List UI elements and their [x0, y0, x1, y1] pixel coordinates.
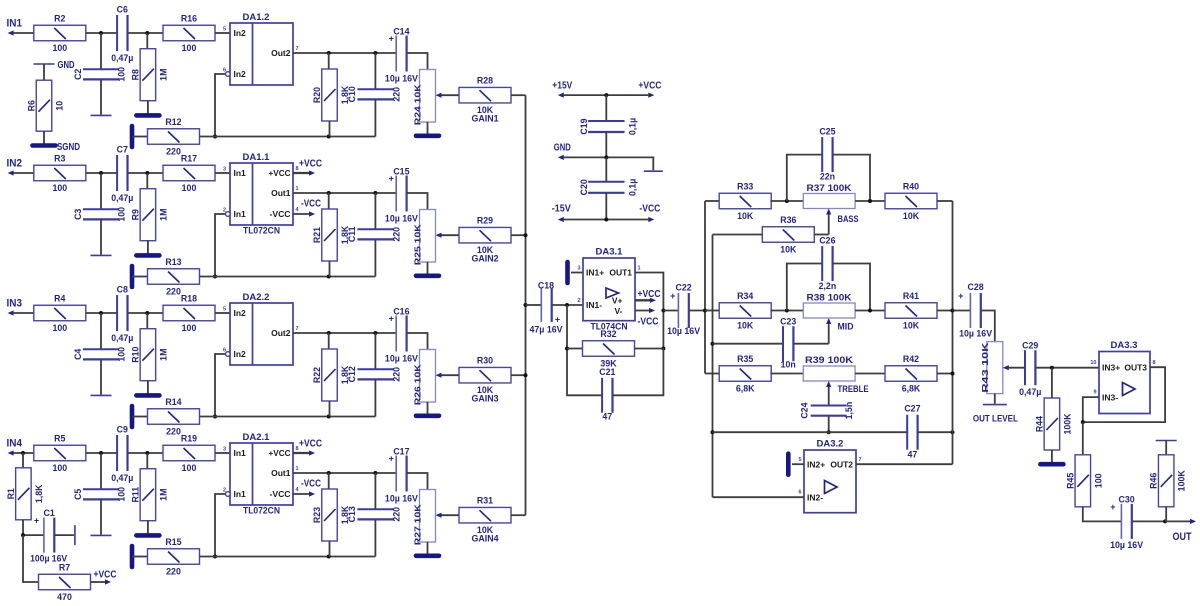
- svg-text:1M: 1M: [158, 209, 168, 221]
- svg-text:+: +: [389, 314, 394, 324]
- wire: [605, 95, 607, 121]
- wire: [374, 379, 376, 416]
- wire: [100, 313, 102, 350]
- svg-text:C21: C21: [599, 367, 615, 377]
- svg-text:IN2: IN2: [7, 158, 23, 170]
- power V- arrow: [635, 308, 659, 328]
- svg-text:1: 1: [296, 186, 299, 192]
- svg-text:100: 100: [52, 323, 67, 333]
- svg-text:IN2-: IN2-: [807, 493, 823, 503]
- wire: [146, 173, 148, 189]
- svg-text:Out1: Out1: [271, 468, 291, 478]
- svg-text:C22: C22: [676, 283, 692, 293]
- svg-text:10K: 10K: [903, 211, 920, 221]
- svg-text:R45: R45: [1065, 473, 1075, 489]
- svg-text:IN2+: IN2+: [807, 460, 825, 470]
- junction: [99, 171, 103, 175]
- junction: [327, 415, 331, 419]
- wire GND rail: [563, 157, 654, 170]
- wire: [86, 312, 117, 314]
- op-amp DA1.1: [223, 152, 300, 237]
- svg-text:R33: R33: [737, 182, 753, 192]
- svg-text:R17: R17: [181, 154, 197, 164]
- svg-text:3: 3: [577, 266, 580, 272]
- wire output DA2.2: [293, 332, 396, 334]
- junction: [213, 555, 217, 559]
- svg-text:R9: R9: [130, 209, 140, 220]
- resistor R30 GAIN3: [459, 356, 511, 404]
- svg-text:47: 47: [908, 450, 918, 460]
- wire: [13, 312, 34, 314]
- svg-text:IN3+: IN3+: [1102, 362, 1120, 372]
- wire: [132, 276, 148, 278]
- wire: [86, 452, 117, 454]
- svg-text:+VCC: +VCC: [638, 289, 661, 300]
- wire: [374, 473, 376, 510]
- svg-text:Out2: Out2: [271, 328, 291, 338]
- capacitor C4: [73, 347, 127, 362]
- ground: [130, 126, 135, 147]
- wiper arrow: [436, 373, 459, 378]
- wire: [828, 416, 830, 433]
- wire OUT3 feedback: [1083, 367, 1165, 422]
- svg-text:R25 10K: R25 10K: [413, 223, 423, 265]
- svg-text:R8: R8: [130, 69, 140, 80]
- junction: [213, 415, 217, 419]
- svg-text:-VCC: -VCC: [301, 199, 321, 210]
- junction: [827, 430, 831, 434]
- junction: [327, 191, 331, 195]
- wiper arrow: [436, 513, 459, 518]
- wire: [328, 193, 330, 209]
- svg-text:IN1-: IN1-: [586, 300, 602, 310]
- wire: [855, 200, 885, 202]
- junction: [327, 51, 331, 55]
- svg-text:1,5n: 1,5n: [844, 402, 854, 420]
- svg-text:22n: 22n: [820, 172, 835, 182]
- wire: [407, 333, 428, 350]
- ground: [1040, 462, 1063, 467]
- svg-text:In2: In2: [234, 349, 247, 359]
- svg-text:V+: V+: [612, 296, 623, 306]
- svg-text:R11: R11: [130, 487, 140, 503]
- wire: [605, 157, 607, 181]
- capacitor C12: [347, 366, 402, 382]
- svg-text:0,47µ: 0,47µ: [1019, 387, 1041, 397]
- capacitor C17: [385, 446, 418, 503]
- wire: [215, 32, 230, 34]
- wire OUT2: [856, 463, 953, 465]
- svg-text:5: 5: [223, 307, 226, 313]
- junction: [868, 309, 872, 313]
- ground: [91, 394, 112, 396]
- wire: [132, 136, 148, 138]
- wiper BASS: [826, 209, 858, 235]
- junction: [661, 347, 665, 351]
- svg-text:C4: C4: [73, 349, 83, 360]
- svg-text:100K: 100K: [1177, 470, 1187, 492]
- junction: [327, 555, 331, 559]
- svg-text:IN3-: IN3-: [1102, 392, 1118, 402]
- wire: [705, 310, 720, 312]
- svg-text:R27 10K: R27 10K: [413, 503, 423, 545]
- svg-text:10: 10: [55, 101, 65, 111]
- svg-text:DA3.1: DA3.1: [596, 247, 624, 258]
- junction: [99, 451, 103, 455]
- wire: [215, 172, 230, 174]
- junction: [21, 533, 25, 537]
- node IN3: [7, 298, 23, 316]
- wire: [128, 452, 164, 454]
- resistor R8 1M: [130, 49, 168, 101]
- junction: [951, 430, 955, 434]
- power V+ arrow: [635, 289, 661, 303]
- capacitor C8: [111, 285, 133, 343]
- svg-text:220: 220: [166, 427, 181, 437]
- svg-text:47: 47: [602, 412, 612, 422]
- svg-text:10n: 10n: [781, 360, 796, 370]
- svg-text:R12: R12: [165, 117, 181, 127]
- potentiometer R38 MID: [803, 293, 855, 319]
- svg-text:+VCC: +VCC: [299, 439, 322, 450]
- wire: [705, 200, 720, 202]
- svg-text:BASS: BASS: [838, 214, 859, 224]
- wire: [86, 32, 117, 34]
- resistor R1: [6, 468, 44, 520]
- svg-text:IN3: IN3: [7, 298, 23, 310]
- svg-text:TREBLE: TREBLE: [838, 384, 869, 394]
- wire: [937, 310, 953, 312]
- svg-text:100: 100: [116, 207, 126, 222]
- svg-text:C12: C12: [347, 366, 357, 382]
- svg-text:100: 100: [52, 183, 67, 193]
- potentiometer R43 OUT LEVEL: [973, 341, 1018, 424]
- wire: [705, 373, 720, 375]
- node IN2: [7, 158, 23, 176]
- ground: [1156, 440, 1177, 442]
- svg-text:+: +: [389, 34, 394, 44]
- capacitor C26: [787, 236, 870, 311]
- svg-text:OUT1: OUT1: [609, 268, 632, 278]
- wire: [128, 312, 164, 314]
- wire: [814, 234, 829, 236]
- wire: [567, 305, 602, 395]
- resistor R10 1M: [130, 329, 168, 381]
- resistor R16: [163, 14, 215, 54]
- ground: [136, 253, 159, 258]
- svg-text:R42: R42: [903, 354, 919, 364]
- wire: [770, 200, 803, 202]
- svg-text:1M: 1M: [158, 69, 168, 81]
- resistor R34: [719, 291, 771, 331]
- svg-text:R22: R22: [312, 367, 322, 383]
- svg-text:+VCC: +VCC: [94, 570, 117, 581]
- svg-text:R46: R46: [1149, 473, 1159, 489]
- wire: [374, 519, 376, 556]
- wiper arrow: [1003, 365, 1025, 370]
- wire: [689, 310, 705, 312]
- svg-text:R14: R14: [165, 397, 181, 407]
- svg-text:3: 3: [223, 447, 226, 453]
- svg-text:R5: R5: [54, 434, 65, 444]
- op-amp DA3.3: [1090, 340, 1155, 414]
- resistor R28 GAIN1: [459, 76, 511, 124]
- svg-text:5: 5: [223, 27, 226, 33]
- svg-text:R20: R20: [312, 87, 322, 103]
- svg-text:C26: C26: [819, 236, 835, 246]
- wire: [374, 239, 376, 276]
- svg-text:In1: In1: [234, 489, 247, 499]
- svg-text:C8: C8: [117, 285, 128, 295]
- ground: [74, 525, 76, 545]
- svg-text:R44: R44: [1034, 416, 1044, 432]
- op-amp DA2.1: [223, 432, 300, 517]
- wire: [13, 452, 34, 454]
- svg-text:1M: 1M: [158, 489, 168, 501]
- wire: [147, 521, 149, 534]
- wiper MID: [826, 318, 854, 344]
- svg-text:+VCC: +VCC: [638, 81, 661, 92]
- ground: [416, 553, 439, 558]
- svg-text:Out2: Out2: [271, 48, 291, 58]
- resistor R20: [312, 69, 350, 121]
- svg-text:6,8K: 6,8K: [736, 384, 755, 394]
- svg-text:100: 100: [182, 183, 197, 193]
- wire: [146, 453, 148, 469]
- net +VCC arrow: [91, 570, 117, 585]
- svg-text:In2: In2: [234, 308, 247, 318]
- svg-text:In2: In2: [234, 28, 247, 38]
- svg-text:100K: 100K: [1062, 413, 1072, 435]
- wire: [953, 310, 971, 312]
- ground: [130, 546, 135, 567]
- svg-text:R30: R30: [477, 356, 493, 366]
- ground: [91, 114, 112, 116]
- svg-text:0,47µ: 0,47µ: [111, 333, 133, 343]
- wire: [635, 348, 664, 350]
- capacitor C7: [111, 145, 133, 203]
- svg-text:GAIN2: GAIN2: [472, 254, 499, 264]
- svg-text:10K: 10K: [903, 321, 920, 331]
- ground: [786, 454, 791, 475]
- wire: [526, 304, 542, 306]
- wire: [374, 193, 376, 230]
- wire output DA1.2: [293, 52, 396, 54]
- capacitor C28: [958, 282, 992, 339]
- wire: [1051, 368, 1053, 398]
- wire: [663, 310, 678, 312]
- svg-text:In1: In1: [234, 448, 247, 458]
- svg-text:2: 2: [223, 208, 226, 214]
- capacitor C25: [787, 127, 870, 202]
- svg-text:R39 100K: R39 100K: [805, 355, 854, 365]
- svg-text:C1: C1: [43, 508, 54, 518]
- svg-text:0,1µ: 0,1µ: [628, 118, 638, 135]
- op-amp DA2.2: [223, 292, 299, 365]
- svg-text:220: 220: [166, 567, 181, 577]
- svg-text:R32: R32: [600, 329, 616, 339]
- svg-text:10µ 16V: 10µ 16V: [385, 73, 418, 83]
- wire: [937, 200, 953, 202]
- wire: [100, 173, 102, 210]
- power +VCC arrow: [293, 159, 322, 176]
- svg-text:GAIN3: GAIN3: [472, 394, 499, 404]
- wiper TREBLE: [826, 381, 868, 406]
- ground: [416, 413, 439, 418]
- svg-text:R38 100K: R38 100K: [807, 293, 853, 303]
- svg-text:10µ 16V: 10µ 16V: [385, 353, 418, 363]
- wire: [132, 556, 148, 558]
- svg-text:R10: R10: [130, 347, 140, 363]
- resistor R22: [312, 349, 350, 401]
- svg-text:100: 100: [1093, 473, 1103, 488]
- resistor R33: [719, 182, 771, 222]
- capacitor C1: [30, 508, 67, 564]
- ground: [983, 404, 1007, 406]
- svg-text:10µ 16V: 10µ 16V: [1110, 540, 1143, 550]
- svg-text:R6: R6: [27, 100, 37, 111]
- junction: [711, 430, 715, 434]
- svg-text:DA1.2: DA1.2: [243, 12, 270, 23]
- resistor R41: [885, 291, 937, 331]
- resistor R35: [719, 354, 771, 394]
- capacitor C29: [1019, 341, 1041, 397]
- junction: [373, 331, 377, 335]
- wire -15V rail: [563, 219, 650, 221]
- junction: [373, 191, 377, 195]
- capacitor C2: [73, 67, 127, 82]
- svg-text:220: 220: [166, 287, 181, 297]
- wire feedback rail: [200, 136, 376, 138]
- svg-text:R3: R3: [54, 154, 65, 164]
- junction: [145, 171, 149, 175]
- wire: [374, 99, 376, 136]
- wire inverting input: [215, 214, 226, 277]
- svg-text:C23: C23: [780, 317, 796, 327]
- svg-text:0,47µ: 0,47µ: [111, 53, 133, 63]
- svg-text:OUT2: OUT2: [830, 460, 853, 470]
- wire: [328, 473, 330, 489]
- wire: [328, 333, 330, 349]
- svg-text:C28: C28: [968, 282, 984, 292]
- svg-text:+: +: [389, 454, 394, 464]
- svg-text:100: 100: [52, 463, 67, 473]
- resistor R44: [1034, 398, 1072, 450]
- junction: [213, 275, 217, 279]
- wire: [605, 193, 607, 220]
- resistor R17: [163, 154, 215, 194]
- wire: [567, 348, 583, 350]
- svg-text:10K: 10K: [737, 321, 754, 331]
- junction: [604, 155, 608, 159]
- ground: [136, 533, 159, 538]
- capacitor C10: [347, 86, 402, 102]
- ground: [91, 534, 112, 536]
- resistor R4: [34, 294, 86, 334]
- junction: [524, 303, 528, 307]
- wire IN2+ stub: [792, 463, 804, 465]
- svg-text:220: 220: [392, 367, 402, 382]
- svg-text:GND: GND: [554, 143, 571, 154]
- wire: [329, 541, 331, 557]
- junction: [604, 93, 608, 97]
- svg-text:C29: C29: [1022, 341, 1038, 351]
- svg-text:C9: C9: [117, 425, 128, 435]
- junction: [524, 233, 528, 237]
- wire IN3-: [1083, 397, 1099, 422]
- svg-text:47µ 16V: 47µ 16V: [530, 325, 563, 335]
- wire: [146, 313, 148, 329]
- svg-text:R43 10K: R43 10K: [980, 341, 990, 392]
- svg-text:DA3.2: DA3.2: [817, 439, 844, 450]
- net GND (R6): [34, 60, 75, 71]
- wire: [43, 64, 45, 80]
- svg-text:100: 100: [116, 347, 126, 362]
- resistor R45: [1065, 455, 1103, 507]
- svg-text:+: +: [670, 291, 675, 301]
- wire: [981, 311, 995, 342]
- junction: [951, 372, 955, 376]
- svg-text:10µ 16V: 10µ 16V: [667, 326, 700, 336]
- wire: [713, 234, 763, 236]
- capacitor C22: [667, 283, 700, 336]
- svg-text:6: 6: [223, 348, 226, 354]
- wire: [407, 473, 428, 490]
- svg-text:+: +: [555, 314, 560, 324]
- svg-text:10µ 16V: 10µ 16V: [385, 213, 418, 223]
- svg-text:2: 2: [577, 298, 580, 304]
- wire: [1165, 507, 1167, 522]
- svg-text:MID: MID: [838, 322, 854, 332]
- svg-text:470: 470: [57, 592, 72, 602]
- wire: [147, 101, 149, 114]
- capacitor C27: [904, 404, 920, 460]
- capacitor C30: [1110, 495, 1143, 550]
- resistor R2: [34, 14, 86, 54]
- junction: [785, 199, 789, 203]
- svg-text:+15V: +15V: [552, 81, 572, 92]
- svg-text:R41: R41: [903, 291, 919, 301]
- resistor R19: [163, 434, 215, 474]
- junction: [145, 451, 149, 455]
- svg-text:GAIN4: GAIN4: [472, 534, 499, 544]
- wire: [937, 373, 953, 375]
- wire output DA1.1: [293, 192, 396, 194]
- resistor R31 GAIN4: [459, 496, 511, 544]
- svg-text:DA1.1: DA1.1: [243, 152, 271, 163]
- capacitor C21: [599, 367, 615, 422]
- ground: [91, 254, 112, 256]
- capacitor C15: [385, 166, 418, 223]
- junction: [327, 471, 331, 475]
- svg-text:DA2.2: DA2.2: [243, 292, 270, 303]
- svg-text:In2: In2: [234, 69, 247, 79]
- svg-text:0,47µ: 0,47µ: [111, 193, 133, 203]
- wire: [855, 373, 885, 375]
- wire: [427, 262, 429, 274]
- svg-text:-VCC: -VCC: [270, 489, 291, 499]
- wire: [215, 452, 230, 454]
- ground: [565, 262, 570, 283]
- svg-text:IN1+: IN1+: [586, 268, 604, 278]
- svg-text:C18: C18: [538, 281, 554, 291]
- svg-text:2,2n: 2,2n: [819, 281, 837, 291]
- svg-text:R21: R21: [312, 227, 322, 243]
- wire: [22, 453, 24, 468]
- capacitor C20: [579, 179, 638, 196]
- node IN1: [7, 18, 23, 36]
- wire: [128, 32, 164, 34]
